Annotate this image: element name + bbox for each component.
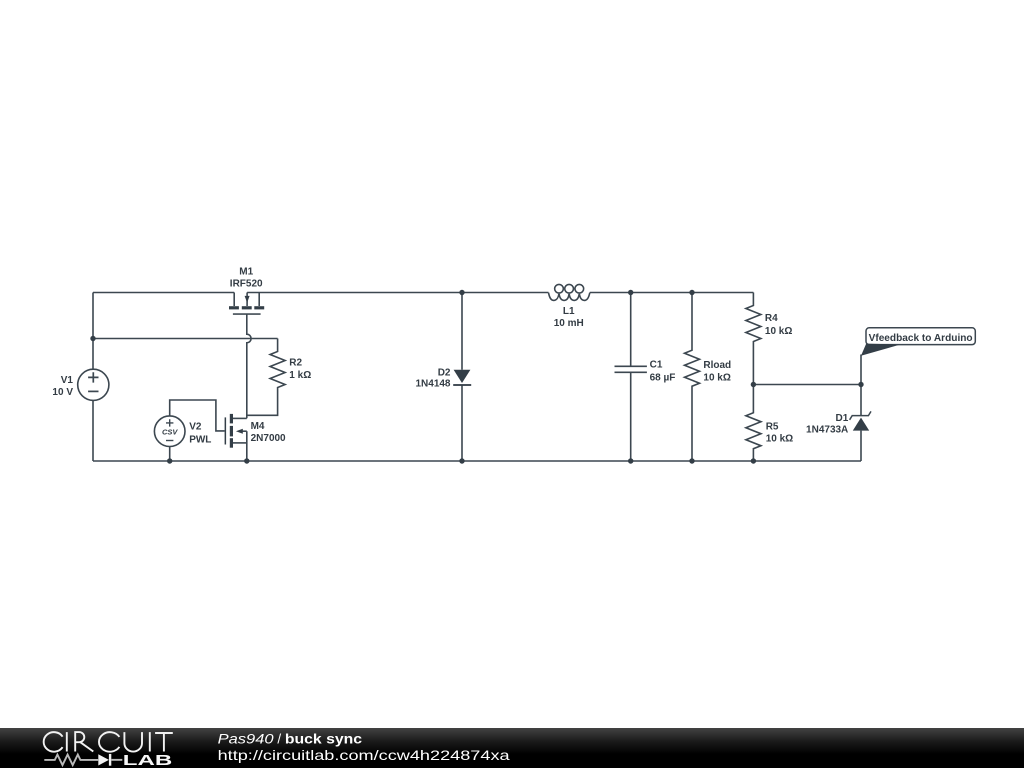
svg-text:M1: M1 — [239, 267, 253, 278]
inductor L1 coil — [549, 284, 590, 300]
svg-text:PWL: PWL — [189, 435, 211, 446]
svg-text:Vfeedback to Arduino: Vfeedback to Arduino — [869, 333, 973, 344]
flag pointer — [861, 344, 900, 356]
resistor Rload — [685, 293, 700, 462]
wire V1 bottom lead — [92, 400, 94, 461]
junction D2 top on rail — [459, 290, 464, 295]
resistor R5 — [746, 385, 761, 462]
junction V1 to middle wire — [90, 336, 95, 341]
junction Rload bottom on ground rail — [689, 458, 694, 463]
junction C1 top on rail — [628, 290, 633, 295]
mosfet M4 body lead — [242, 430, 247, 432]
mosfet M4 drain lead — [231, 417, 246, 419]
svg-text:V1: V1 — [61, 375, 74, 386]
svg-text:1 kΩ: 1 kΩ — [289, 370, 311, 381]
mosfet M1 body stub — [246, 293, 248, 307]
V1 plus sign — [88, 372, 98, 382]
junction R5 bottom on ground rail — [751, 458, 756, 463]
svg-text:1N4733A: 1N4733A — [806, 425, 848, 436]
svg-text:http://circuitlab.com/ccw4h224: http://circuitlab.com/ccw4h224874xa — [218, 747, 510, 763]
logo CIRCUIT letters — [44, 732, 173, 752]
wire M1 gate down with hop over middle wire — [247, 315, 251, 419]
capacitor C1 — [615, 293, 647, 462]
component labels — [52, 267, 848, 446]
junction Rload top on rail — [689, 290, 694, 295]
svg-text:V2: V2 — [189, 422, 202, 433]
junction C1 bottom on ground rail — [628, 458, 633, 463]
wire flag to D1 junction — [860, 355, 862, 416]
mosfet M1 arrow — [245, 296, 250, 303]
svg-text:M4: M4 — [251, 421, 265, 432]
V2 minus sign — [166, 440, 173, 442]
logo resistor squiggle — [44, 755, 98, 766]
svg-text:LAB: LAB — [123, 753, 173, 768]
diode D2 leads — [461, 293, 463, 462]
node Vfeedback at R4/R5 divider — [751, 382, 756, 387]
mosfet M4 gate bar — [225, 417, 227, 444]
junction M4 source on ground rail — [244, 458, 249, 463]
mosfet M1 gate bar — [233, 313, 261, 315]
mosfet M4 channel bars — [230, 414, 233, 424]
logo diode — [98, 754, 109, 765]
wire middle (V1 to R2 top) — [93, 338, 278, 340]
svg-text:10 mH: 10 mH — [554, 318, 584, 329]
svg-text:1N4148: 1N4148 — [415, 379, 450, 390]
flag Vfeedback box — [861, 328, 975, 356]
svg-text:R2: R2 — [289, 358, 302, 369]
svg-text:CSV: CSV — [162, 427, 178, 436]
svg-text:Rload: Rload — [703, 360, 731, 371]
svg-text:C1: C1 — [650, 360, 663, 371]
wire bottom rail — [93, 460, 861, 462]
wire feedback node (R4/R5 to D1) — [753, 384, 861, 386]
mosfet M1 channel bars — [229, 306, 239, 309]
diode D2 triangle — [454, 370, 471, 383]
junction D1 anode at feedback wire — [858, 382, 863, 387]
wire M4 source to bottom rail — [246, 431, 248, 461]
svg-text:D1: D1 — [836, 413, 849, 424]
mosfet M1 source stub — [258, 293, 260, 307]
svg-text:L1: L1 — [563, 306, 575, 317]
mosfet M1 drain stub — [233, 293, 235, 307]
svg-text:10 kΩ: 10 kΩ — [765, 326, 792, 337]
V2 bottom lead — [169, 447, 171, 462]
junction V2 bottom on ground rail — [167, 458, 172, 463]
svg-text:R4: R4 — [765, 313, 778, 324]
mosfet M4 source lead — [231, 442, 246, 444]
mosfet M4 arrow — [236, 429, 243, 434]
svg-text:2N7000: 2N7000 — [251, 433, 286, 444]
zener D1 cathode bar with ticks — [850, 411, 871, 419]
svg-text:Pas940 / buck sync: Pas940 / buck sync — [218, 731, 363, 746]
svg-text:R5: R5 — [766, 421, 779, 432]
footer bar — [0, 728, 1024, 768]
zener D1 leads — [860, 431, 862, 461]
svg-text:68 µF: 68 µF — [650, 372, 676, 383]
resistor R4 — [746, 293, 761, 385]
svg-text:10 kΩ: 10 kΩ — [703, 373, 730, 384]
zener D1 triangle — [853, 418, 869, 431]
wire top rail left (V1 to M1 drain) — [93, 292, 234, 294]
V1 minus sign — [88, 390, 98, 392]
diode D2 cathode bar — [453, 384, 471, 386]
voltage source V1 circle — [78, 369, 109, 400]
wire V1 top lead — [92, 293, 94, 370]
V2 gate wiring — [170, 400, 225, 431]
wire top rail right (M1 source to R4) — [247, 292, 753, 294]
resistor R2 — [247, 339, 285, 416]
svg-text:10 V: 10 V — [52, 387, 73, 398]
voltage source V2 circle — [154, 416, 185, 447]
svg-text:IRF520: IRF520 — [230, 279, 263, 290]
junction D2 bottom on ground rail — [459, 458, 464, 463]
V2 plus sign — [166, 419, 173, 426]
svg-text:D2: D2 — [438, 368, 451, 379]
svg-text:10 kΩ: 10 kΩ — [766, 434, 793, 445]
